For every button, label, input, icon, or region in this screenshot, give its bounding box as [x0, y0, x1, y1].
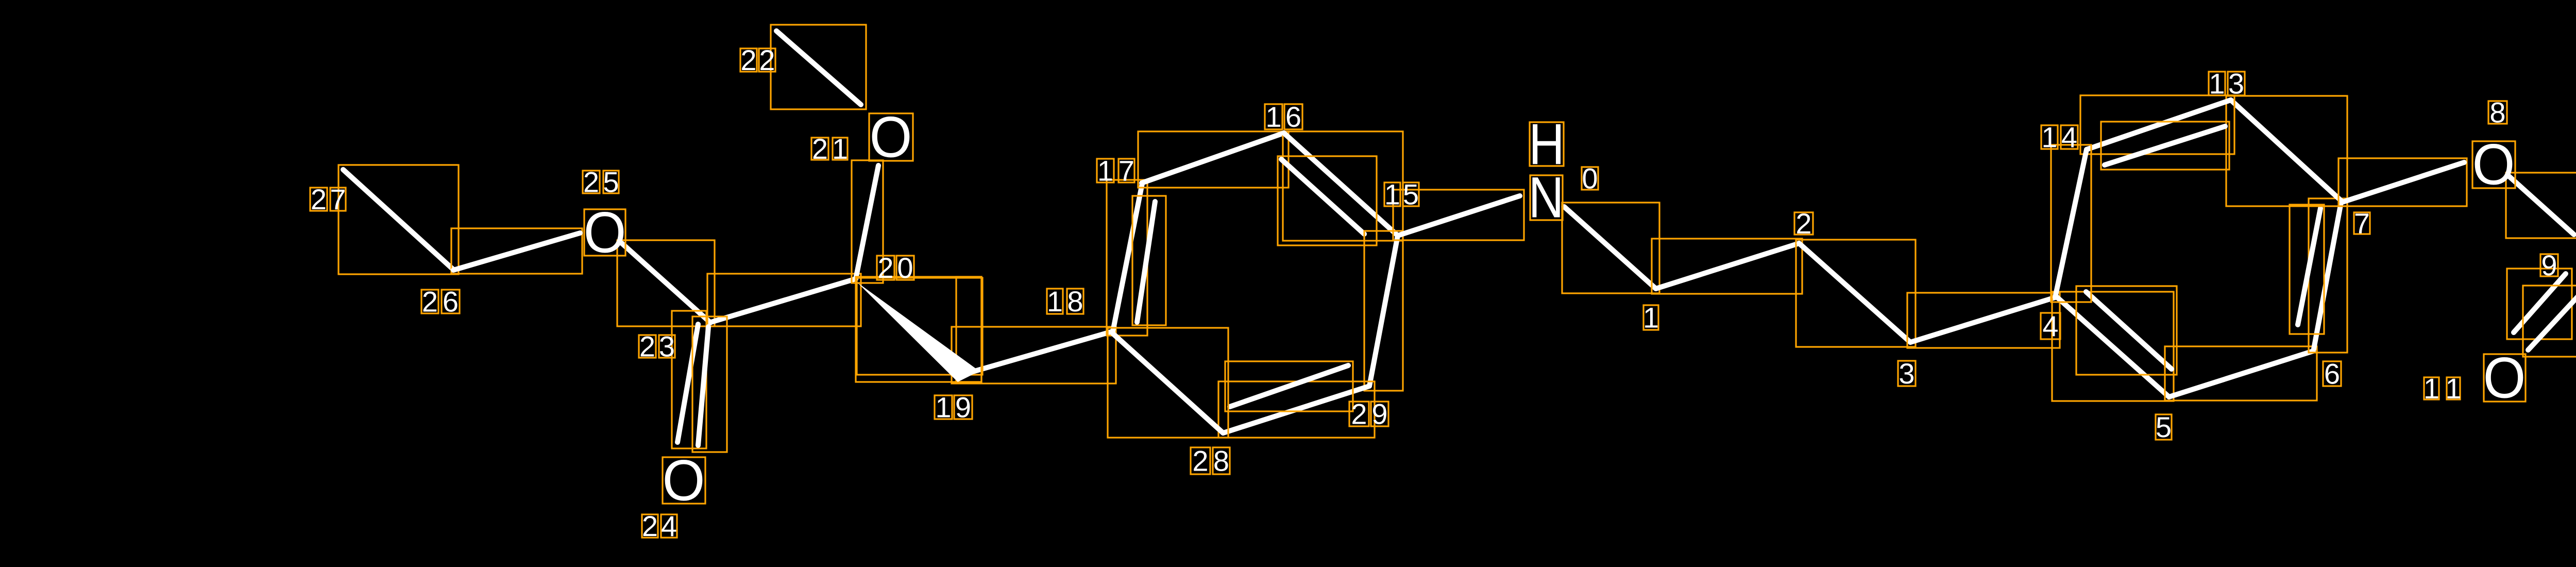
- bond S9=O11 line a: [2507, 269, 2572, 339]
- label 15: [1384, 178, 1419, 210]
- svg-text:2: 2: [1192, 444, 1208, 477]
- bond O25-C23: [617, 240, 715, 326]
- svg-text:2: 2: [759, 44, 775, 76]
- label 0: [1582, 162, 1598, 194]
- svg-text:1: 1: [832, 132, 848, 165]
- label 9: [2540, 249, 2558, 281]
- bond C16=C15 outer line: [1283, 131, 1403, 241]
- svg-text:7: 7: [1118, 154, 1134, 187]
- label 26: [421, 285, 460, 318]
- bond C2-C3: [1796, 240, 1916, 347]
- bond C29=C28 inner line: [1225, 361, 1353, 411]
- svg-text:1: 1: [1265, 101, 1281, 133]
- label 7: [2354, 207, 2370, 239]
- svg-text:9: 9: [1371, 397, 1387, 430]
- svg-text:1: 1: [2209, 67, 2225, 99]
- label 25: [583, 165, 619, 198]
- atom O25: [584, 201, 626, 265]
- bond C26-O25: [451, 228, 582, 274]
- label 27: [310, 183, 346, 215]
- svg-text:1: 1: [1097, 154, 1113, 187]
- svg-text:2: 2: [877, 252, 893, 284]
- bond C5-C6: [2165, 346, 2317, 401]
- atom N0: [1529, 165, 1564, 230]
- bond C3-C4: [1907, 293, 2060, 348]
- svg-text:4: 4: [2061, 121, 2077, 153]
- svg-text:2: 2: [642, 510, 658, 542]
- svg-text:1: 1: [2041, 121, 2057, 153]
- svg-text:4: 4: [661, 510, 677, 542]
- svg-text:3: 3: [1899, 357, 1914, 390]
- label 20: [877, 252, 914, 284]
- svg-text:O: O: [870, 105, 912, 170]
- svg-text:1: 1: [1047, 285, 1063, 318]
- label 17: [1097, 154, 1134, 187]
- bond C14-C4: [2051, 145, 2091, 302]
- label 22: [740, 44, 775, 76]
- wedge bond C20-C19: [856, 277, 982, 382]
- label 14: [2041, 121, 2078, 153]
- label 18: [1047, 285, 1083, 318]
- bond C7-C13: [2226, 96, 2347, 206]
- svg-text:5: 5: [1403, 178, 1419, 210]
- bond C6=C7 inner line: [2290, 205, 2324, 334]
- label 2: [1794, 207, 1813, 240]
- bond C19-C18: [952, 327, 1116, 383]
- bond C7-O8: [2338, 158, 2467, 206]
- bond C29=C28 outer line: [1218, 381, 1375, 438]
- bond N0-C1: [1562, 203, 1659, 293]
- label 23: [639, 330, 675, 362]
- svg-text:1: 1: [935, 391, 951, 423]
- svg-text:9: 9: [2541, 249, 2557, 281]
- bond S9=O11 line b: [2523, 286, 2576, 357]
- svg-text:O: O: [2472, 132, 2515, 197]
- bond C4=C5 outer line: [2052, 292, 2174, 401]
- svg-text:1: 1: [2424, 372, 2439, 405]
- bond C28-C18: [1108, 328, 1228, 438]
- svg-text:6: 6: [2324, 357, 2340, 390]
- svg-text:0: 0: [897, 252, 913, 284]
- svg-text:5: 5: [2156, 411, 2172, 443]
- svg-text:N: N: [1529, 165, 1564, 230]
- label 6: [2323, 357, 2341, 390]
- bond O21-C22: [771, 25, 866, 109]
- svg-text:7: 7: [2354, 207, 2370, 239]
- bond C20-O21: [852, 160, 883, 283]
- svg-text:O: O: [2483, 346, 2526, 410]
- svg-text:3: 3: [659, 330, 675, 362]
- svg-text:2: 2: [311, 183, 327, 215]
- label 5: [2156, 411, 2172, 443]
- label 13: [2209, 67, 2245, 99]
- bond C23=O24 line b: [692, 316, 727, 452]
- bond O8-S9: [2506, 173, 2576, 238]
- bond C13=C14 inner line: [2101, 122, 2229, 170]
- bond C15-N0: [1393, 190, 1524, 240]
- bond C4=C5 inner line: [2076, 286, 2177, 375]
- svg-text:2: 2: [639, 330, 655, 362]
- bond C17-C16: [1138, 131, 1289, 188]
- atom O24: [663, 448, 705, 513]
- svg-text:4: 4: [2042, 310, 2058, 342]
- svg-text:7: 7: [330, 183, 346, 215]
- label 8: [2488, 96, 2507, 128]
- svg-text:2: 2: [422, 285, 438, 318]
- bond C27-C26: [338, 165, 459, 274]
- bond C18=C17 outer line: [1107, 180, 1147, 336]
- label 29: [1349, 397, 1388, 430]
- svg-text:2: 2: [812, 132, 828, 165]
- label 19: [935, 391, 972, 423]
- label 24: [642, 510, 677, 542]
- svg-text:1: 1: [1643, 301, 1659, 333]
- svg-text:2: 2: [583, 165, 599, 198]
- svg-text:1: 1: [1384, 178, 1400, 210]
- label 4: [2041, 310, 2060, 342]
- svg-text:2: 2: [740, 44, 756, 76]
- label 16: [1265, 101, 1302, 133]
- svg-text:9: 9: [955, 391, 971, 423]
- svg-text:1: 1: [2445, 372, 2461, 405]
- bond C13=C14 outer line: [2080, 95, 2234, 154]
- svg-text:8: 8: [1213, 444, 1229, 477]
- svg-text:0: 0: [1582, 162, 1598, 194]
- bond C6=C7 outer line: [2309, 198, 2347, 353]
- label 1: [1643, 301, 1659, 333]
- svg-text:8: 8: [2489, 96, 2505, 128]
- bond C23-C20: [707, 274, 861, 326]
- label 11: [2424, 372, 2462, 405]
- atom H of N0: [1529, 112, 1565, 177]
- svg-text:O: O: [584, 201, 626, 265]
- label 21: [811, 132, 848, 165]
- atom O11: [2483, 346, 2526, 410]
- bond C18=C17 inner line: [1132, 196, 1166, 325]
- bond C1-C2: [1652, 239, 1802, 294]
- label 28: [1191, 444, 1230, 477]
- svg-text:5: 5: [603, 165, 619, 198]
- svg-text:O: O: [663, 448, 705, 513]
- bond C23=O24 line a: [672, 311, 706, 448]
- atom O8: [2472, 132, 2515, 197]
- svg-text:6: 6: [443, 285, 459, 318]
- bond C15-C29: [1364, 231, 1403, 391]
- bond C16=C15 inner line: [1278, 156, 1377, 245]
- svg-text:3: 3: [2228, 67, 2244, 99]
- svg-text:2: 2: [1351, 397, 1367, 430]
- label 3: [1898, 357, 1916, 390]
- atom O21: [869, 105, 913, 170]
- svg-text:6: 6: [1285, 101, 1301, 133]
- svg-text:2: 2: [1795, 207, 1811, 240]
- svg-text:8: 8: [1067, 285, 1083, 318]
